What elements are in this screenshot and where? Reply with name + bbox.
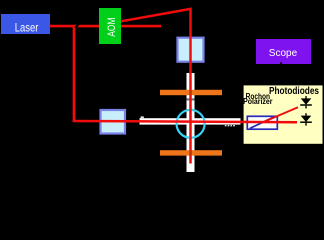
- stage bar B2 overlap (beam dimmed under orange): [190, 150, 192, 155]
- stage bar B1 overlap (beam dimmed under orange): [190, 90, 192, 95]
- splitter BS1 (black diagonal notch at junction): [75, 22, 80, 28]
- tick T3 (small white notches under rail H1): [225, 125, 235, 127]
- photodiode D2 (bottom): [300, 113, 312, 125]
- beam W1 (laser to AOM): [50, 25, 99, 28]
- rail H1 (horizontal optical rail): [140, 118, 241, 124]
- beam W5/W6 (AOM first-order diagonal up-right, then vertical down): [121, 9, 191, 164]
- laser box U1: [1, 14, 50, 34]
- lens L1 (cyan circle): [177, 110, 205, 138]
- stage bar B1 (top orange bar): [160, 90, 222, 95]
- polarizer PR1 diagonal: [250, 117, 275, 129]
- beam W4 (bottom horizontal beam to photodiode): [73, 121, 297, 122]
- tick T2 (gray tick on rail V1): [187, 98, 195, 100]
- svg-text:Photodiodes: Photodiodes: [269, 86, 319, 97]
- photodiode D1 (top): [300, 96, 312, 108]
- polarizer PR1 (Rochon polarizer rectangle): [247, 116, 277, 129]
- beam W2 (AOM zero-order stub): [121, 25, 161, 28]
- svg-text:AOM: AOM: [106, 18, 118, 37]
- svg-text:Polarizer: Polarizer: [243, 97, 272, 106]
- notch at scope bottom edge: [280, 62, 282, 64]
- tick T1 (white tick above rail H1 left end): [141, 116, 144, 118]
- svg-text:Scope: Scope: [269, 48, 298, 59]
- rail V1 (vertical optical rail): [187, 73, 195, 172]
- svg-text:Laser: Laser: [15, 21, 39, 35]
- beam W7 (diagonal inside yellow box to photodiode D1): [262, 107, 298, 123]
- optic plate P1 (top light-blue square): [178, 38, 204, 62]
- optic plate P2 (left light-blue square): [101, 110, 126, 134]
- beam W3 (branch down from splitter): [73, 25, 76, 121]
- enclosure E1 (yellow photodiode box): [243, 85, 323, 145]
- scope box U3: [256, 39, 311, 64]
- AOM box U2: [99, 8, 121, 44]
- stage bar B2 (bottom orange bar): [160, 150, 222, 155]
